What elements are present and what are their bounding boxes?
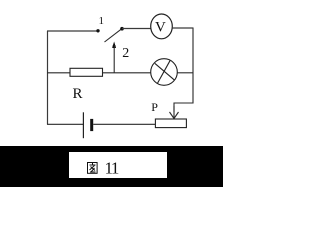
wire: left vertical bus bbox=[47, 31, 49, 125]
wire: contact 2 down to resistor row bbox=[113, 45, 115, 73]
rheostat wiper arrow bbox=[170, 112, 179, 119]
svg-text:1: 1 bbox=[99, 15, 105, 27]
wire: battery to rheostat bbox=[93, 123, 155, 125]
svg-text:P: P bbox=[151, 100, 158, 114]
caption glyph 图 (drawn) bbox=[88, 163, 98, 174]
switch contact 2 arrow bbox=[112, 42, 116, 49]
wire: resistor row left segment bbox=[47, 72, 70, 74]
wire: right vertical bus bbox=[192, 28, 194, 104]
lamp L circle bbox=[151, 59, 178, 86]
wire: voltmeter to right bus bbox=[172, 27, 193, 29]
node: switch pivot dot bbox=[120, 27, 124, 31]
caption white box bbox=[69, 152, 167, 178]
svg-text:R: R bbox=[73, 86, 83, 102]
voltmeter U1 circle bbox=[151, 14, 173, 39]
wire: pivot to voltmeter bbox=[122, 28, 151, 30]
lamp cross stroke 2 bbox=[157, 60, 170, 83]
svg-text:11: 11 bbox=[105, 159, 119, 178]
node: switch contact 1 dot bbox=[96, 29, 99, 32]
rheostat P body bbox=[155, 119, 186, 128]
svg-text:V: V bbox=[155, 20, 166, 36]
switch S blade bbox=[105, 29, 123, 42]
resistor R body bbox=[70, 68, 103, 76]
svg-text:2: 2 bbox=[122, 46, 129, 61]
wire: resistor to lamp bbox=[103, 72, 152, 74]
wire: right bus elbow to wiper bbox=[174, 103, 193, 112]
caption black bar bbox=[0, 146, 223, 187]
lamp cross stroke 1 bbox=[155, 63, 175, 80]
battery short plate (-) bbox=[90, 119, 93, 131]
wire: lamp to right bus bbox=[177, 72, 193, 74]
battery long plate (+) bbox=[82, 112, 84, 138]
rheostat wiper arrow shaft bbox=[173, 106, 175, 119]
wire: bottom left segment to battery bbox=[47, 123, 83, 125]
wire: top wire to switch contact 1 bbox=[47, 30, 97, 32]
